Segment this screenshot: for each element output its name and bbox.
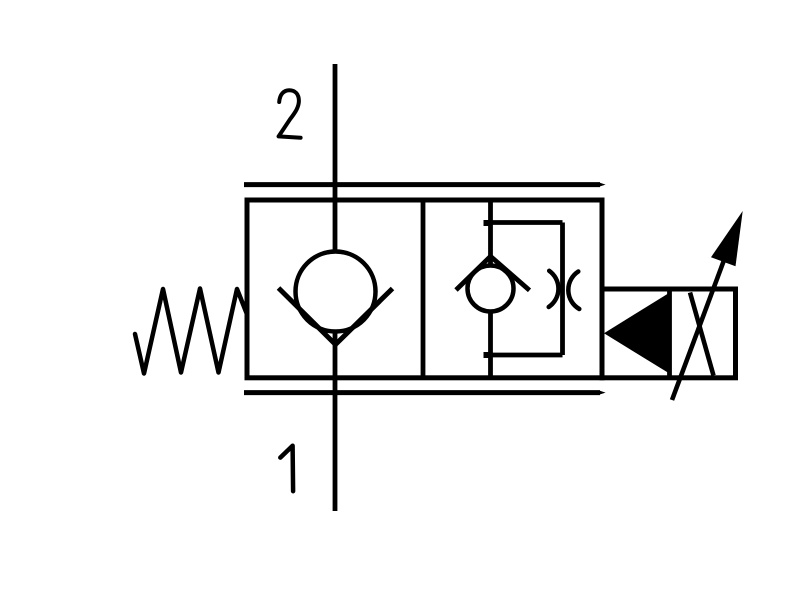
orifice right arc (568, 272, 579, 310)
pilot loop rectangle (bottom edge with junction tick) (484, 353, 563, 358)
check valve seat V (279, 288, 393, 345)
node label 2 (top port) (279, 90, 301, 138)
main valve box (247, 200, 602, 378)
chamber divider (421, 200, 426, 378)
wire port line 2-1 (vertical main flow line) (333, 64, 338, 511)
pilot check seat (inverted V) (456, 256, 530, 290)
solenoid wedge (filled triangle) (604, 293, 669, 373)
wire pilot vertical line (right chamber) (488, 200, 493, 378)
junction tick top (484, 220, 489, 226)
node label 1 (bottom port) (280, 446, 293, 492)
pilot loop rectangle (top edge with junction tick) (484, 220, 563, 225)
valve body bottom line (with pointed right end) (244, 390, 606, 395)
junction tick bottom (484, 352, 489, 358)
check valve ball (main poppet circle) (296, 252, 376, 332)
solenoid box (602, 289, 736, 378)
solenoid divider (667, 289, 672, 378)
solenoid slash (690, 293, 714, 376)
pilot loop rectangle (right edge) (560, 223, 565, 356)
pilot check ball (468, 266, 514, 312)
spring (135, 289, 247, 374)
orifice left arc (549, 271, 559, 307)
valve body top line (with pointed right end) (244, 182, 606, 187)
proportional adjustment arrow (shaft) (672, 211, 743, 400)
